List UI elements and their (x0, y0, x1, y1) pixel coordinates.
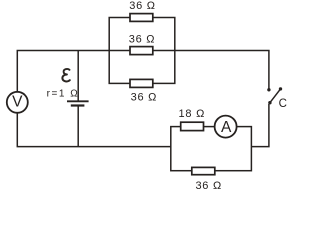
wire: battery branch upper (77, 51, 79, 102)
switch C: lever (270, 89, 281, 103)
resistor R3 36 ohm (bottom of group 1) (130, 79, 153, 87)
label EMF epsilon (62, 69, 69, 81)
wire: left vertical lower and bottom wire (17, 113, 171, 147)
battery EMF source: short plate (71, 104, 85, 106)
switch C: top contact dot (267, 88, 270, 91)
wire: group 2 loop (buses and branches) (171, 127, 252, 171)
wire: parallel group 1 loop (buses and outer branches) (109, 18, 175, 84)
svg-text:36 Ω: 36 Ω (129, 33, 156, 45)
ammeter A (215, 116, 237, 138)
wire: right vertical lower from switch and stub to group 2 (251, 104, 269, 147)
svg-text:V: V (12, 94, 23, 111)
svg-text:36 Ω: 36 Ω (129, 0, 156, 12)
resistor R1 36 ohm (top) (130, 14, 153, 22)
switch C: lever free-end dot (279, 87, 282, 90)
resistor R4 18 ohm (181, 122, 204, 130)
wire: top loop (left vertical, main top wire, right vertical to switch) (17, 51, 269, 92)
resistor R5 36 ohm (group 2) (192, 167, 215, 174)
svg-text:A: A (221, 119, 232, 136)
svg-text:36 Ω: 36 Ω (131, 91, 158, 103)
svg-text:18 Ω: 18 Ω (179, 108, 206, 120)
wire: battery branch lower (77, 106, 79, 147)
resistor R2 36 ohm (middle) (130, 47, 153, 55)
voltmeter V (7, 92, 28, 113)
battery EMF source: long plate (67, 100, 89, 102)
svg-text:r=1 Ω: r=1 Ω (47, 89, 80, 100)
switch C: bottom contact dot (268, 101, 271, 104)
svg-text:36 Ω: 36 Ω (195, 180, 222, 192)
svg-text:C: C (279, 98, 287, 110)
